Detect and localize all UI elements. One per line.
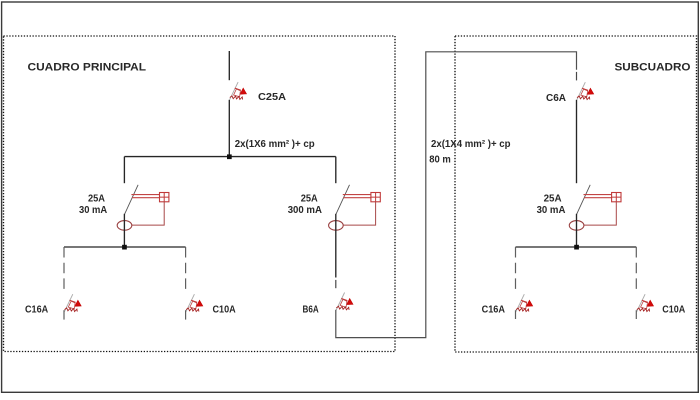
wire: C10A tail dash [185, 310, 187, 319]
wire: bus to RCD1 [123, 157, 125, 184]
svg-text:2x(1X4 mm² )+ cp: 2x(1X4 mm² )+ cp [431, 139, 511, 150]
wire: C25A to main bus [228, 100, 230, 157]
circuit breaker C16A [64, 294, 81, 312]
node: junction main bus [227, 154, 232, 159]
svg-text:C6A: C6A [546, 93, 566, 104]
wire: bus to RCD2 [335, 157, 337, 184]
wire: main distribution bus [124, 156, 335, 158]
circuit breaker C16A sub [516, 294, 533, 312]
circuit breaker C10A sub [637, 294, 654, 312]
wire: sub C16A tail dash [515, 310, 517, 319]
svg-text:30 mA: 30 mA [79, 205, 108, 216]
circuit breaker B6A [336, 293, 353, 311]
wire: incoming feeder top [228, 51, 230, 80]
wire: RCD2 down [335, 214, 337, 278]
node: junction sub bus [574, 245, 579, 250]
wire: pre-dash B6A [335, 280, 337, 288]
RCD differential 25A 30mA sub [569, 185, 621, 230]
svg-text:25A: 25A [544, 193, 562, 204]
wire: C6A to sub RCD [576, 100, 578, 183]
svg-text:80 m: 80 m [429, 154, 451, 165]
circuit breaker C10A [186, 294, 203, 312]
svg-text:CUADRO PRINCIPAL: CUADRO PRINCIPAL [28, 62, 147, 74]
wire: main lower distribution bus [64, 246, 186, 248]
svg-text:2x(1X6 mm² )+ cp: 2x(1X6 mm² )+ cp [235, 139, 315, 150]
wire: drop to C10A (dashed) [185, 247, 187, 292]
wire: RCD1 to lower bus [123, 214, 125, 247]
wire: sub C10A tail dash [635, 310, 637, 319]
node: junction lower bus [122, 245, 127, 250]
wire: pre-dash C6A [576, 72, 578, 81]
wire: drop to sub C10A (dashed) [635, 247, 637, 292]
panel boundary CUADRO PRINCIPAL (dotted) [4, 36, 396, 352]
circuit breaker C6A [577, 82, 594, 100]
svg-text:25A: 25A [88, 193, 105, 204]
RCD differential 25A 300mA [329, 185, 381, 230]
svg-text:C25A: C25A [258, 92, 287, 103]
svg-text:C10A: C10A [662, 305, 685, 316]
wire: sub distribution bus [516, 246, 637, 248]
svg-text:C16A: C16A [25, 305, 49, 316]
RCD differential 25A 30mA main [117, 185, 169, 230]
svg-text:30 mA: 30 mA [537, 205, 566, 216]
panel boundary SUBCUADRO (dotted) [455, 36, 697, 352]
wire: drop to C16A (dashed) [63, 247, 65, 292]
circuit breaker C25A [230, 82, 247, 100]
wire: sub RCD to sub bus [576, 214, 578, 247]
svg-text:C16A: C16A [482, 305, 506, 316]
svg-text:SUBCUADRO: SUBCUADRO [615, 62, 691, 74]
wire: drop to sub C16A (dashed) [515, 247, 517, 292]
wire: feeder to subcuadro [336, 52, 577, 338]
svg-text:C10A: C10A [213, 305, 237, 316]
wire: C16A tail dash [63, 310, 65, 319]
svg-text:B6A: B6A [303, 304, 320, 315]
svg-text:300 mA: 300 mA [288, 205, 323, 216]
svg-text:25A: 25A [301, 193, 318, 204]
